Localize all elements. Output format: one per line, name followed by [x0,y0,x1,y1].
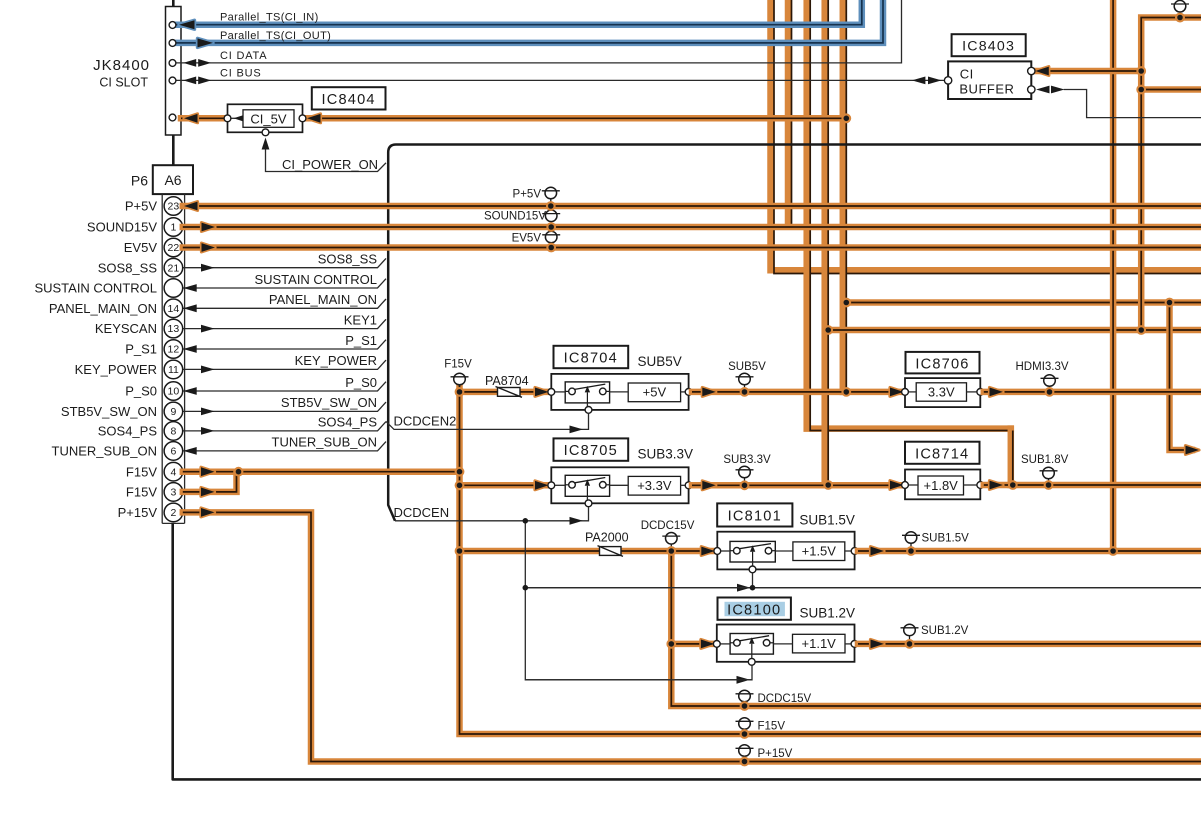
svg-text:EV5V: EV5V [124,240,158,255]
IC8706 regulator outer box [905,378,980,407]
svg-text:STB5V_SW_ON: STB5V_SW_ON [281,395,377,410]
arrow into IC8706 [890,388,904,397]
svg-text:P+15V: P+15V [118,505,158,520]
power symbol F15V top [459,385,461,392]
IC8704 regulator outer box [551,374,688,410]
wire CI DATA [176,0,902,63]
svg-text:KEY_POWER: KEY_POWER [75,362,157,377]
svg-text:SUB3.3V: SUB3.3V [723,454,771,466]
arrow into IC8714 [890,481,904,490]
signal line KEY_POWER [183,360,386,369]
svg-text:+1.1V: +1.1V [802,636,837,651]
wire CI_5V from connector to regulator [181,115,224,122]
IC8714 pins [902,482,909,489]
power symbol unnamed at top right [1179,12,1181,18]
connector pins on JK8400 [169,22,176,29]
svg-text:+1.8V: +1.8V [924,478,959,493]
wire CI_5V supply from V5 to regulator [306,115,846,122]
wire bus vertical V5 (x=846) ending on SUB5V line [840,0,847,392]
svg-text:PANEL_MAIN_ON: PANEL_MAIN_ON [269,292,377,307]
svg-text:SUB1.5V: SUB1.5V [799,512,855,527]
label box IC8403 [952,34,1026,56]
svg-text:IC8101: IC8101 [728,509,782,525]
label box IC8714 [905,442,980,464]
wire top-right horizontal y=17.5 with vertical x=1141 down to y=330 [1141,18,1201,331]
IC8101 +1.5V box [793,542,845,561]
enable net vertical + branches [525,521,752,680]
wire into IC8100 [671,641,713,648]
svg-text:DCDC15V: DCDC15V [641,520,695,532]
arrow into pin 23 [184,202,198,211]
IC8706 pins [902,389,909,396]
fuse PA8704 [498,388,521,397]
svg-text:8: 8 [170,426,176,438]
wire bus vertical V1 (x=774) turning right at y=273.5, runs to right edge [771,0,1201,270]
svg-text:SUSTAIN CONTROL: SUSTAIN CONTROL [34,281,157,296]
arrow up into CI_5V bottom pin [262,138,270,150]
double arrow CI DATA [183,59,196,67]
signal line KEY1 [183,319,386,328]
pin ladder rails [161,194,163,523]
IC8706 3.3V box [916,383,966,401]
svg-text:SOS8_SS: SOS8_SS [98,260,158,275]
power symbol SUB1.5V [910,543,912,551]
wire bus vertical V2 (x=791.5) ending on SOUND15V wire [785,0,792,224]
connector stem between JK8400 and A6 [172,135,175,165]
svg-text:IC8714: IC8714 [915,446,969,462]
svg-text:DCDCEN2: DCDCEN2 [394,413,457,428]
wire from V4 at y=330 to right edge [828,327,1201,334]
wire P+15V from pin 2 down and along bottom to right edge [183,512,1201,761]
IC8704 pins [548,389,555,396]
IC8100 +1.1V box [793,634,846,653]
svg-text:STB5V_SW_ON: STB5V_SW_ON [61,404,157,419]
fuse PA2000 [600,547,622,556]
arrow out of pin 22 [202,243,216,252]
IC8101 pins [714,548,721,555]
wire SUB5V output of IC8704 [692,389,904,396]
svg-text:13: 13 [168,323,180,335]
pins and labels of connector A6 [164,197,183,216]
wire from V5 at y=302.5 to right edge [846,299,1201,306]
IC8100 pins [713,641,720,648]
svg-text:A6: A6 [164,172,181,188]
wire CI BUFFER supply y=71 from pin to x=1141 [1035,68,1141,75]
wire vertical x=1169.5 down, turning right at y=450, exits with arrow [1170,303,1193,451]
wire EV5V from pin 22 to right edge [183,244,1201,251]
main board boundary top edge + left edge [388,145,1201,521]
svg-text:11: 11 [168,364,179,376]
IC8100 regulator outer box [717,625,855,662]
wire y=89.5 from x=1141 to right edge [1141,86,1201,93]
CI BUFFER pins [944,77,951,84]
svg-text:IC8404: IC8404 [321,92,375,108]
svg-text:DCDC15V: DCDC15V [758,693,812,705]
svg-text:SUSTAIN CONTROL: SUSTAIN CONTROL [254,272,377,287]
connector box A6 [153,165,193,194]
svg-text:6: 6 [170,446,176,458]
svg-text:SUB1.8V: SUB1.8V [1021,454,1069,466]
svg-text:TUNER_SUB_ON: TUNER_SUB_ON [272,435,377,450]
svg-text:CI SLOT: CI SLOT [99,76,148,90]
pins of CI_5V regulator [224,115,231,122]
signal line SOS8_SS [183,258,386,267]
svg-text:CI: CI [960,66,974,81]
power symbol SOUND15V [550,222,552,227]
svg-text:IC8100: IC8100 [727,602,781,618]
wire Parallel_TS(CI_OUT) blue [176,0,883,43]
wire CI BUS [176,79,945,81]
svg-text:IC8403: IC8403 [962,39,1015,55]
svg-text:Parallel_TS(CI_IN): Parallel_TS(CI_IN) [220,12,319,24]
svg-text:CI_POWER_ON: CI_POWER_ON [282,157,378,172]
arrow into IC8101 [701,547,715,556]
svg-text:4: 4 [170,466,176,478]
svg-text:+3.3V: +3.3V [637,478,672,493]
power symbol HDMI3.3V [1049,386,1051,392]
svg-text:KEY_POWER: KEY_POWER [295,353,377,368]
double arrow at CI BUFFER lower right pin [1036,86,1050,94]
IC8101 enable stem [752,573,754,588]
svg-text:JK8400: JK8400 [93,57,150,74]
svg-text:KEY1: KEY1 [344,312,377,327]
svg-text:P+5V: P+5V [125,199,157,214]
svg-text:PA8704: PA8704 [485,374,529,388]
wire F15V from pin 3 joining pin 4 wire [183,474,237,492]
svg-text:SOS8_SS: SOS8_SS [318,252,378,267]
svg-text:10: 10 [168,386,180,398]
svg-text:P_S0: P_S0 [125,384,157,399]
svg-text:22: 22 [168,242,180,254]
wire bus vertical V4 (x=828) ending on SUB3.3V line [821,0,828,485]
svg-text:Parallel_TS(CI_OUT): Parallel_TS(CI_OUT) [220,30,331,42]
svg-text:CI DATA: CI DATA [220,50,267,62]
svg-text:12: 12 [168,344,180,356]
power symbol SUB1.8V [1048,479,1050,485]
svg-text:F15V: F15V [758,721,786,733]
power symbol P+15V bottom [744,756,746,761]
wire bus vertical V3 (x=810) turning right at y=430.5 toward SUB1.8V riser [807,0,1011,429]
svg-text:SUB5V: SUB5V [728,361,766,373]
wire SUB1.5V output of IC8101 to right edge [858,548,1201,555]
signal line SOS4_PS [183,422,386,431]
svg-text:21: 21 [168,262,180,274]
power symbol SUB3.3V [744,478,746,486]
junction dots [823,325,833,335]
svg-text:1: 1 [170,222,176,234]
power symbol F15V bottom [744,729,746,734]
power symbol DCDC15V [670,544,672,551]
enable line DCDCEN [395,507,589,521]
svg-text:P+5V: P+5V [513,189,542,201]
signal line P_S1 [183,340,386,349]
connector JK8400 stem top [172,0,175,7]
wire Parallel_TS(CI_IN) blue [176,0,862,25]
IC8101 switch [730,541,775,562]
svg-text:KEYSCAN: KEYSCAN [95,321,157,336]
svg-text:HDMI3.3V: HDMI3.3V [1016,361,1069,373]
label box IC8101 [717,503,792,526]
svg-text:SOUND15V: SOUND15V [87,220,157,235]
svg-text:23: 23 [168,201,180,213]
regulator CI_5V inner box [243,110,294,128]
arrow into connector CI_5V pin [184,114,198,123]
power symbol DCDC15V bottom [744,702,746,706]
svg-text:CI BUS: CI BUS [220,67,261,79]
svg-text:F15V: F15V [444,359,472,371]
wire into IC8705 [460,482,548,489]
svg-text:P_S1: P_S1 [125,342,157,357]
wire into IC8704 through PA8704 [460,389,548,396]
double arrow CI BUS at buffer [912,77,926,85]
svg-text:SUB1.2V: SUB1.2V [800,605,856,620]
label box IC8706 [906,352,980,374]
svg-text:14: 14 [168,303,180,315]
regulator CI_5V outer box [228,104,303,132]
arrow exiting right at y=450 [1186,446,1200,455]
svg-text:9: 9 [170,406,176,418]
svg-text:IC8706: IC8706 [915,356,969,372]
svg-text:BUFFER: BUFFER [959,82,1014,97]
svg-text:P_S1: P_S1 [345,333,377,348]
svg-text:P_S0: P_S0 [345,375,377,390]
IC8714 regulator outer box [905,470,980,500]
svg-text:PA2000: PA2000 [585,531,629,545]
label box IC8705 [554,438,629,460]
svg-text:P6: P6 [131,173,148,189]
label box IC8100 [718,598,791,620]
wire F15V from pin 4 [183,468,460,475]
signal line SUSTAIN CONTROL [183,279,386,288]
IC8705 +3.3V box [628,476,680,495]
wire into IC8101 through PA2000 [460,548,715,555]
svg-text:+1.5V: +1.5V [802,544,837,559]
wire SUB1.2V output of IC8100 to right edge [858,641,1201,648]
svg-text:IC8704: IC8704 [564,350,618,366]
IC8714 +1.8V box [918,476,964,495]
svg-text:3.3V: 3.3V [928,385,955,400]
svg-text:P+15V: P+15V [758,748,793,760]
power symbol P+5V [550,199,552,206]
arrow out of pin 1 [202,223,216,232]
connector stem bottom + ground return line to right edge [173,523,1201,779]
signal line P_S0 [183,382,386,391]
wire DCDC15V vertical to IC8100 and bottom rail [671,551,1201,706]
IC8704 +5V box [628,383,680,402]
svg-text:SUB5V: SUB5V [638,354,682,369]
power symbol EV5V [550,243,552,248]
power symbol SUB1.2V [909,636,911,644]
signal line STB5V_SW_ON [183,402,386,411]
enable line DCDCEN2 [386,413,589,429]
svg-text:3: 3 [170,487,176,499]
arrow out CI_OUT [198,38,214,47]
svg-text:IC8705: IC8705 [564,443,618,459]
arrow into IC8101 enable [737,584,751,592]
svg-text:PANEL_MAIN_ON: PANEL_MAIN_ON [49,301,157,316]
CI BUS routed line from buffer to right edge [1064,90,1201,118]
wire vertical x=1113 from top ending at SUB1.5V line [1110,0,1117,551]
power symbol SUB5V [744,385,746,392]
CI BUFFER box [948,61,1031,99]
signal line TUNER_SUB_ON [183,442,386,451]
arrow into CI_IN pin [179,20,195,29]
label box IC8404 [312,87,386,109]
arrow into CI BUFFER top-right pin [1035,67,1049,76]
label box IC8704 [554,346,629,368]
wire SUB1.8V riser from y=430.5 down to SUB1.8V line [1008,429,1015,485]
wire SOUND15V from pin 1 to right edge [183,224,1201,231]
wire SUB1.8V output of IC8714 to right edge [984,482,1201,489]
wire SUB3.3V output of IC8705 [692,482,904,489]
IC8704 switch [565,382,609,403]
arrow into IC8100 enable [737,676,751,684]
signal line PANEL_MAIN_ON [183,299,386,308]
svg-text:SOS4_PS: SOS4_PS [98,424,158,439]
svg-text:+5V: +5V [643,385,667,400]
IC8101 regulator outer box [717,532,854,570]
arrow into CI_5V regulator right pin [307,114,321,123]
IC8705 switch [565,475,609,496]
svg-text:2: 2 [170,507,176,519]
arrow into IC8704 [535,388,549,397]
wire CI_POWER_ON [266,146,387,172]
svg-text:SUB3.3V: SUB3.3V [638,447,694,462]
svg-text:SUB1.2V: SUB1.2V [921,625,969,637]
IC8100 switch [730,634,773,655]
svg-text:DCDCEN: DCDCEN [394,505,450,520]
wire HDMI3.3V output of IC8706 to right edge [984,389,1201,396]
svg-text:EV5V: EV5V [512,232,542,244]
wire F15V vertical distribution x=459.5 down to y=734 then right edge [460,385,1201,734]
wire P+5V from pin 23 to right edge [183,203,1201,210]
IC8705 pins [548,482,555,489]
enable net redrawn over orange crossings [525,587,1201,589]
svg-text:CI_5V: CI_5V [250,111,286,126]
svg-text:TUNER_SUB_ON: TUNER_SUB_ON [52,444,157,459]
IC8705 regulator outer box [551,467,688,503]
svg-text:SOUND15V: SOUND15V [484,210,546,222]
connector JK8400 body [166,7,182,136]
thin link + arrow inside CI_5V [231,117,243,119]
svg-text:F15V: F15V [126,464,157,479]
svg-text:F15V: F15V [126,485,157,500]
double arrow CI BUS at connector [183,77,196,85]
svg-text:SOS4_PS: SOS4_PS [318,415,378,430]
svg-text:SUB1.5V: SUB1.5V [922,532,970,544]
